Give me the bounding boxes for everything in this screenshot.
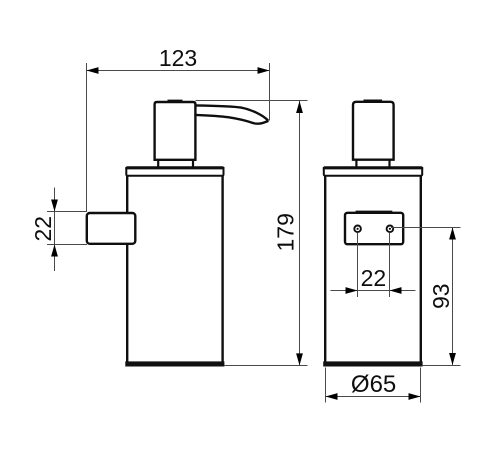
extension line bottom of dim 22 left: [47, 244, 87, 246]
screw hole right ring: [387, 226, 394, 233]
bottom extension baseline for dim 179: [225, 365, 308, 367]
pump neck front left line: [355, 160, 357, 168]
pump head top ridge: [168, 100, 181, 102]
extension line left of dim 65: [325, 368, 327, 403]
pump neck right line: [192, 160, 194, 168]
arrow left-pointing at right hole line: [390, 287, 402, 294]
arrow left of dim 123: [87, 67, 99, 74]
pump head front top ridge: [364, 100, 381, 102]
arrow up of dim 22 left: [51, 245, 58, 257]
lid front: [324, 167, 422, 176]
dim line 22 right: [331, 290, 416, 292]
extension line top of dim 22 left: [47, 211, 87, 213]
mounting plate top tab: [356, 211, 391, 213]
svg-text:93: 93: [428, 283, 454, 309]
arrow right-pointing at left hole line: [346, 287, 358, 294]
arrow bottom of dim 179: [296, 353, 303, 365]
arrow top of dim 93: [449, 228, 456, 240]
arrow right of dim 123: [258, 67, 270, 74]
dim line 22 left: [54, 188, 56, 272]
screw hole right dot: [389, 228, 391, 230]
svg-text:Ø65: Ø65: [351, 371, 396, 398]
arrow right of dim 65: [409, 393, 421, 400]
spout bottom curve: [195, 115, 268, 124]
spout top curve: [195, 105, 268, 120]
base plate bar front: [323, 361, 422, 366]
lid front top thick line: [323, 167, 423, 169]
body left vertical edge: [324, 176, 326, 362]
svg-text:179: 179: [272, 213, 298, 251]
svg-text:22: 22: [30, 216, 56, 242]
body left vertical edge lower: [126, 244, 128, 362]
svg-text:123: 123: [159, 45, 197, 71]
dim line 123: [87, 70, 270, 72]
body right vertical edge: [420, 176, 422, 362]
screw hole left ring: [354, 226, 361, 233]
base plate bar: [125, 361, 224, 366]
pump head: [155, 102, 196, 160]
body right vertical edge: [221, 175, 223, 362]
extension line from right hole to dim 93: [391, 227, 461, 229]
top extension line for dim 179: [196, 100, 308, 102]
dim line 93: [452, 228, 454, 366]
arrow bottom of dim 93: [449, 353, 456, 365]
arrow top of dim 179: [296, 101, 303, 113]
dim line 179: [299, 101, 301, 365]
extension line right of dim 65: [420, 368, 422, 403]
lid: [126, 167, 223, 176]
pump head front: [353, 102, 394, 160]
baseline extension to dim 93: [423, 365, 461, 367]
mounting plate: [345, 213, 403, 244]
body left vertical edge upper: [126, 175, 128, 214]
arrow down of dim 22 left: [51, 200, 58, 212]
extension line right of dim 123 (to spout tip): [269, 63, 271, 121]
extension line left of dim 123: [86, 63, 88, 212]
arrow left of dim 65: [326, 393, 338, 400]
svg-text:22: 22: [361, 265, 387, 291]
lid top thick line: [125, 167, 224, 169]
extension line from left hole down: [357, 233, 359, 298]
wall bracket: [87, 213, 136, 244]
pump neck left line: [157, 160, 159, 168]
dim line 65: [326, 396, 421, 398]
screw hole left dot: [357, 228, 359, 230]
pump neck front right line: [388, 160, 390, 168]
extension line from right hole down: [389, 233, 391, 298]
